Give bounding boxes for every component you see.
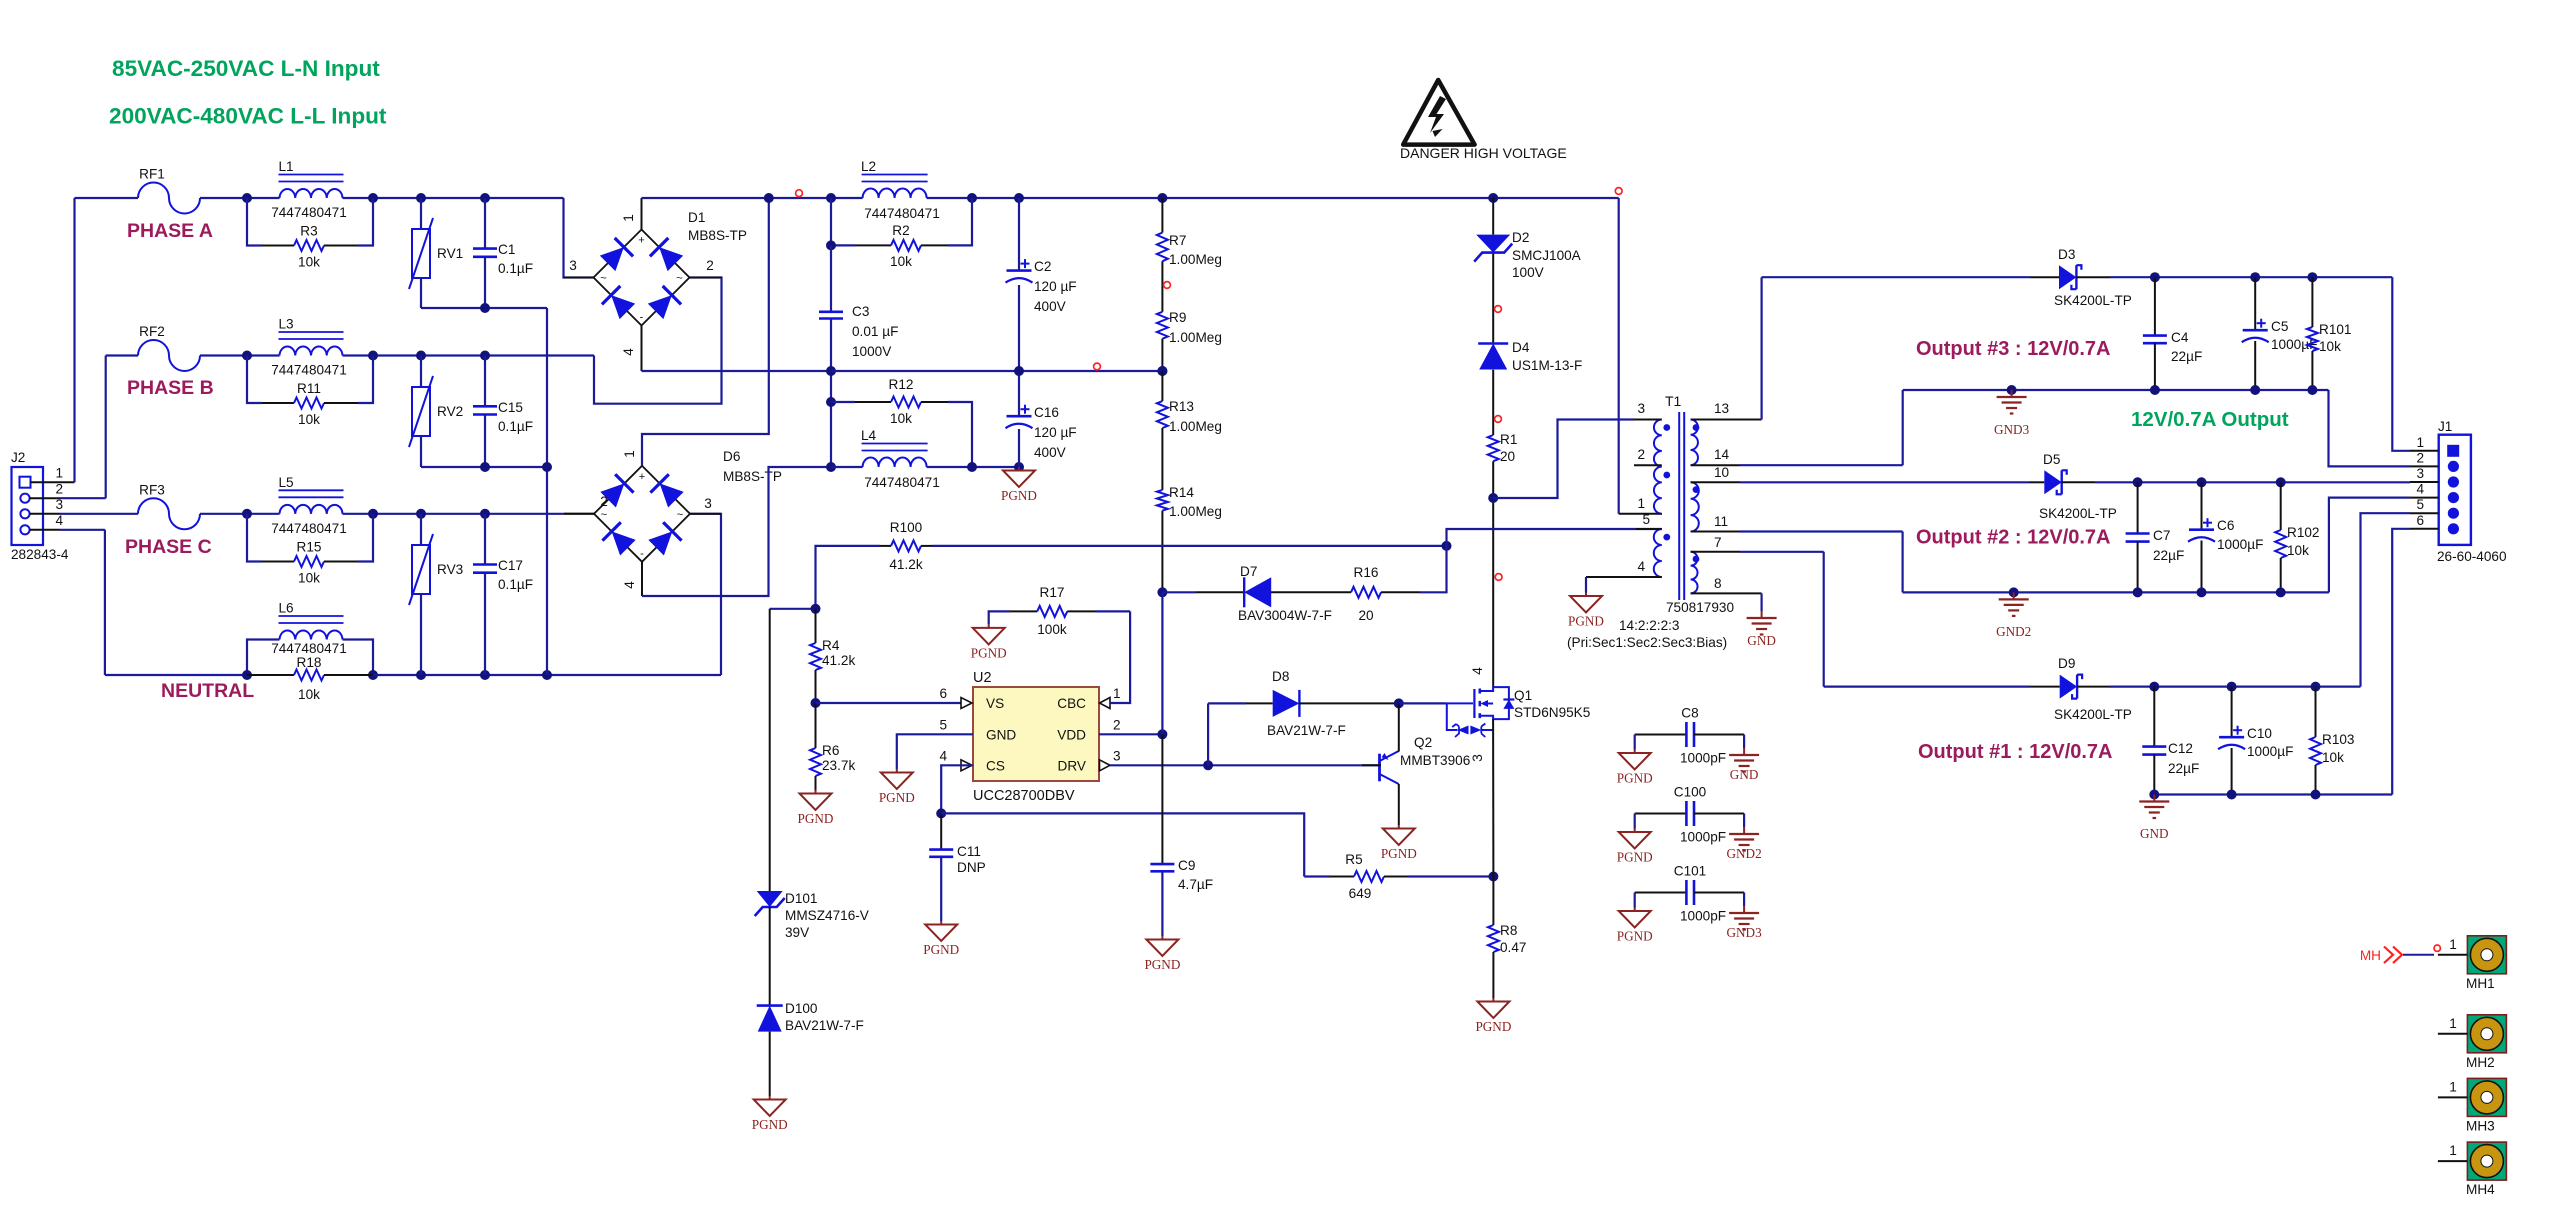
svg-text:DANGER HIGH VOLTAGE: DANGER HIGH VOLTAGE bbox=[1400, 145, 1567, 161]
svg-text:5: 5 bbox=[1642, 512, 1650, 527]
svg-text:4: 4 bbox=[1470, 667, 1485, 675]
svg-text:MB8S-TP: MB8S-TP bbox=[688, 228, 747, 243]
svg-text:2: 2 bbox=[55, 482, 63, 497]
svg-text:1: 1 bbox=[1113, 686, 1121, 701]
svg-text:RF2: RF2 bbox=[139, 324, 165, 339]
svg-text:GND3: GND3 bbox=[1994, 422, 2030, 437]
svg-text:PGND: PGND bbox=[1617, 929, 1653, 944]
svg-text:23.7k: 23.7k bbox=[822, 758, 855, 773]
svg-text:3: 3 bbox=[1113, 749, 1121, 764]
svg-text:C15: C15 bbox=[498, 400, 523, 415]
svg-text:GND3: GND3 bbox=[1727, 925, 1763, 940]
svg-text:BAV21W-7-F: BAV21W-7-F bbox=[785, 1018, 864, 1033]
svg-text:2: 2 bbox=[1637, 447, 1645, 462]
svg-text:PGND: PGND bbox=[923, 942, 959, 957]
svg-text:PGND: PGND bbox=[1381, 846, 1417, 861]
svg-text:J2: J2 bbox=[11, 450, 25, 465]
svg-text:5: 5 bbox=[939, 718, 947, 733]
svg-text:MH2: MH2 bbox=[2466, 1055, 2495, 1070]
svg-text:VDD: VDD bbox=[1057, 728, 1086, 743]
svg-text:6: 6 bbox=[2416, 513, 2424, 528]
svg-text:L6: L6 bbox=[279, 601, 294, 616]
svg-text:R6: R6 bbox=[822, 743, 839, 758]
svg-text:R101: R101 bbox=[2319, 322, 2352, 337]
svg-text:Output #1 : 12V/0.7A: Output #1 : 12V/0.7A bbox=[1918, 741, 2113, 763]
svg-text:PGND: PGND bbox=[798, 811, 834, 826]
svg-text:D4: D4 bbox=[1512, 340, 1530, 355]
svg-text:Q1: Q1 bbox=[1514, 688, 1532, 703]
svg-text:1: 1 bbox=[2449, 1143, 2457, 1158]
svg-text:22µF: 22µF bbox=[2171, 349, 2202, 364]
svg-text:~: ~ bbox=[676, 273, 682, 285]
svg-text:7447480471: 7447480471 bbox=[271, 521, 347, 536]
svg-text:D100: D100 bbox=[785, 1001, 818, 1016]
svg-text:1: 1 bbox=[621, 214, 636, 222]
svg-text:D6: D6 bbox=[723, 449, 740, 464]
svg-text:R4: R4 bbox=[822, 638, 840, 653]
svg-text:100V: 100V bbox=[1512, 265, 1544, 280]
svg-text:10k: 10k bbox=[2322, 750, 2344, 765]
svg-text:L1: L1 bbox=[279, 159, 294, 174]
svg-text:2: 2 bbox=[706, 258, 714, 273]
svg-text:MB8S-TP: MB8S-TP bbox=[723, 469, 782, 484]
svg-text:GND: GND bbox=[2140, 826, 2169, 841]
svg-text:1: 1 bbox=[2416, 435, 2424, 450]
svg-text:D5: D5 bbox=[2043, 452, 2060, 467]
svg-text:MMSZ4716-V: MMSZ4716-V bbox=[785, 908, 869, 923]
svg-text:+: + bbox=[638, 235, 644, 247]
svg-text:750817930: 750817930 bbox=[1666, 600, 1734, 615]
svg-text:0.01 µF: 0.01 µF bbox=[852, 324, 898, 339]
svg-text:GND: GND bbox=[986, 728, 1016, 743]
svg-text:GND2: GND2 bbox=[1727, 846, 1762, 861]
svg-text:CS: CS bbox=[986, 759, 1005, 774]
svg-text:7447480471: 7447480471 bbox=[271, 205, 347, 220]
svg-text:PGND: PGND bbox=[971, 645, 1007, 660]
svg-text:10k: 10k bbox=[890, 411, 912, 426]
svg-text:D7: D7 bbox=[1240, 564, 1257, 579]
svg-text:L3: L3 bbox=[279, 317, 294, 332]
svg-text:100k: 100k bbox=[1037, 622, 1067, 637]
svg-text:MH3: MH3 bbox=[2466, 1118, 2495, 1133]
svg-text:-: - bbox=[640, 312, 644, 324]
svg-text:1000pF: 1000pF bbox=[1680, 909, 1726, 924]
svg-text:NEUTRAL: NEUTRAL bbox=[161, 680, 254, 702]
svg-text:RV2: RV2 bbox=[437, 404, 463, 419]
svg-text:D101: D101 bbox=[785, 891, 818, 906]
svg-text:GND2: GND2 bbox=[1996, 624, 2031, 639]
svg-text:RV1: RV1 bbox=[437, 246, 463, 261]
svg-text:PHASE B: PHASE B bbox=[127, 377, 214, 399]
svg-text:SK4200L-TP: SK4200L-TP bbox=[2054, 707, 2132, 722]
svg-text:3: 3 bbox=[2416, 466, 2424, 481]
svg-text:1.00Meg: 1.00Meg bbox=[1169, 330, 1222, 345]
svg-text:41.2k: 41.2k bbox=[822, 653, 855, 668]
svg-text:Output #3 : 12V/0.7A: Output #3 : 12V/0.7A bbox=[1916, 338, 2111, 360]
svg-text:20: 20 bbox=[1358, 608, 1374, 623]
svg-text:C16: C16 bbox=[1034, 405, 1059, 420]
svg-text:400V: 400V bbox=[1034, 445, 1066, 460]
svg-text:SMCJ100A: SMCJ100A bbox=[1512, 248, 1582, 263]
svg-text:7: 7 bbox=[1714, 535, 1722, 550]
svg-text:PHASE A: PHASE A bbox=[127, 220, 213, 242]
svg-text:SK4200L-TP: SK4200L-TP bbox=[2054, 293, 2132, 308]
svg-text:VS: VS bbox=[986, 696, 1004, 711]
svg-text:MMBT3906: MMBT3906 bbox=[1400, 753, 1470, 768]
svg-text:10k: 10k bbox=[298, 571, 320, 586]
svg-text:4: 4 bbox=[939, 749, 947, 764]
svg-text:1: 1 bbox=[55, 466, 63, 481]
svg-text:3: 3 bbox=[569, 258, 577, 273]
svg-text:D3: D3 bbox=[2058, 247, 2075, 262]
svg-text:400V: 400V bbox=[1034, 299, 1066, 314]
svg-text:~: ~ bbox=[677, 509, 683, 521]
svg-text:4.7µF: 4.7µF bbox=[1178, 877, 1213, 892]
svg-text:DRV: DRV bbox=[1058, 759, 1086, 774]
svg-text:4: 4 bbox=[2416, 482, 2424, 497]
svg-text:1: 1 bbox=[1637, 496, 1645, 511]
svg-text:C8: C8 bbox=[1681, 706, 1698, 721]
svg-text:BAV21W-7-F: BAV21W-7-F bbox=[1267, 723, 1346, 738]
svg-text:L5: L5 bbox=[279, 475, 294, 490]
svg-text:DNP: DNP bbox=[957, 860, 986, 875]
svg-text:L4: L4 bbox=[861, 428, 877, 443]
svg-text:C7: C7 bbox=[2153, 528, 2170, 543]
svg-text:R11: R11 bbox=[297, 381, 321, 396]
svg-text:1: 1 bbox=[2449, 937, 2457, 952]
svg-text:0.1µF: 0.1µF bbox=[498, 261, 533, 276]
svg-text:PGND: PGND bbox=[1568, 614, 1604, 629]
svg-text:11: 11 bbox=[1714, 514, 1728, 529]
svg-text:-: - bbox=[640, 548, 644, 560]
svg-text:282843-4: 282843-4 bbox=[11, 547, 69, 562]
svg-text:STD6N95K5: STD6N95K5 bbox=[1514, 705, 1590, 720]
svg-text:7447480471: 7447480471 bbox=[271, 363, 347, 378]
svg-text:C4: C4 bbox=[2171, 330, 2189, 345]
svg-text:13: 13 bbox=[1714, 401, 1729, 416]
svg-text:1000pF: 1000pF bbox=[1680, 751, 1726, 766]
svg-text:RF1: RF1 bbox=[139, 167, 165, 182]
svg-text:R1: R1 bbox=[1500, 432, 1517, 447]
svg-text:3: 3 bbox=[704, 496, 712, 511]
svg-text:7447480471: 7447480471 bbox=[271, 641, 347, 656]
svg-text:D1: D1 bbox=[688, 210, 705, 225]
svg-text:R5: R5 bbox=[1345, 852, 1362, 867]
svg-text:10k: 10k bbox=[2319, 339, 2341, 354]
svg-text:6: 6 bbox=[939, 686, 947, 701]
svg-text:0.47: 0.47 bbox=[1500, 940, 1526, 955]
svg-text:10k: 10k bbox=[890, 254, 912, 269]
svg-text:R15: R15 bbox=[297, 540, 322, 555]
svg-text:39V: 39V bbox=[785, 925, 809, 940]
svg-text:120 µF: 120 µF bbox=[1034, 425, 1077, 440]
svg-text:1: 1 bbox=[622, 450, 637, 458]
svg-text:85VAC-250VAC L-N Input: 85VAC-250VAC L-N Input bbox=[112, 56, 380, 81]
svg-text:U2: U2 bbox=[973, 670, 992, 686]
svg-text:T1: T1 bbox=[1665, 393, 1682, 409]
svg-text:C9: C9 bbox=[1178, 858, 1195, 873]
svg-text:R9: R9 bbox=[1169, 310, 1186, 325]
svg-text:Output #2 : 12V/0.7A: Output #2 : 12V/0.7A bbox=[1916, 527, 2111, 549]
svg-text:1000V: 1000V bbox=[852, 344, 891, 359]
svg-text:1.00Meg: 1.00Meg bbox=[1169, 419, 1222, 434]
svg-text:CBC: CBC bbox=[1057, 696, 1086, 711]
svg-text:PGND: PGND bbox=[1617, 771, 1653, 786]
svg-text:C3: C3 bbox=[852, 304, 869, 319]
svg-text:1: 1 bbox=[2449, 1016, 2457, 1031]
svg-text:10: 10 bbox=[1714, 465, 1730, 480]
svg-text:20: 20 bbox=[1500, 449, 1516, 464]
svg-text:200VAC-480VAC L-L Input: 200VAC-480VAC L-L Input bbox=[109, 104, 387, 129]
svg-text:1000pF: 1000pF bbox=[1680, 830, 1726, 845]
svg-text:+: + bbox=[639, 471, 645, 483]
svg-text:PGND: PGND bbox=[1144, 957, 1180, 972]
svg-text:R17: R17 bbox=[1040, 585, 1065, 600]
svg-text:C10: C10 bbox=[2247, 726, 2272, 741]
svg-text:D9: D9 bbox=[2058, 656, 2075, 671]
svg-text:R102: R102 bbox=[2287, 525, 2320, 540]
svg-text:1.00Meg: 1.00Meg bbox=[1169, 504, 1222, 519]
svg-text:2: 2 bbox=[2416, 450, 2424, 465]
svg-text:PGND: PGND bbox=[752, 1117, 788, 1132]
svg-text:4: 4 bbox=[622, 581, 637, 589]
svg-text:C12: C12 bbox=[2168, 741, 2193, 756]
svg-text:1000µF: 1000µF bbox=[2247, 744, 2293, 759]
svg-text:R100: R100 bbox=[890, 520, 923, 535]
svg-text:R2: R2 bbox=[892, 223, 909, 238]
svg-text:R8: R8 bbox=[1500, 923, 1517, 938]
svg-text:SK4200L-TP: SK4200L-TP bbox=[2039, 506, 2117, 521]
svg-text:~: ~ bbox=[601, 509, 607, 521]
svg-text:Q2: Q2 bbox=[1414, 735, 1432, 750]
svg-text:1.00Meg: 1.00Meg bbox=[1169, 252, 1222, 267]
svg-text:R103: R103 bbox=[2322, 732, 2355, 747]
svg-text:0.1µF: 0.1µF bbox=[498, 419, 533, 434]
svg-text:0.1µF: 0.1µF bbox=[498, 577, 533, 592]
svg-text:1: 1 bbox=[2449, 1079, 2457, 1094]
svg-text:RF3: RF3 bbox=[139, 482, 165, 497]
svg-text:D2: D2 bbox=[1512, 230, 1529, 245]
svg-text:GND: GND bbox=[1747, 633, 1776, 648]
svg-text:10k: 10k bbox=[298, 412, 320, 427]
svg-text:12V/0.7A Output: 12V/0.7A Output bbox=[2131, 408, 2289, 431]
svg-text:C11: C11 bbox=[957, 844, 981, 859]
svg-text:8: 8 bbox=[1714, 576, 1722, 591]
svg-text:C5: C5 bbox=[2271, 319, 2288, 334]
svg-text:~: ~ bbox=[600, 273, 606, 285]
svg-text:R7: R7 bbox=[1169, 233, 1186, 248]
svg-text:R16: R16 bbox=[1354, 565, 1379, 580]
svg-text:7447480471: 7447480471 bbox=[864, 206, 940, 221]
svg-text:2: 2 bbox=[1113, 718, 1121, 733]
svg-text:14: 14 bbox=[1714, 447, 1730, 462]
svg-text:MH4: MH4 bbox=[2466, 1182, 2495, 1197]
svg-text:120 µF: 120 µF bbox=[1034, 279, 1077, 294]
svg-text:J1: J1 bbox=[2438, 419, 2452, 434]
svg-text:C2: C2 bbox=[1034, 259, 1051, 274]
svg-text:GND: GND bbox=[1730, 767, 1759, 782]
svg-text:PGND: PGND bbox=[1475, 1019, 1511, 1034]
svg-text:PGND: PGND bbox=[1001, 488, 1037, 503]
svg-text:C6: C6 bbox=[2217, 518, 2234, 533]
svg-text:R13: R13 bbox=[1169, 399, 1194, 414]
svg-text:14:2:2:2:3: 14:2:2:2:3 bbox=[1619, 618, 1679, 633]
svg-text:(Pri:Sec1:Sec2:Sec3:Bias): (Pri:Sec1:Sec2:Sec3:Bias) bbox=[1567, 635, 1727, 650]
svg-text:4: 4 bbox=[55, 513, 63, 528]
svg-text:R14: R14 bbox=[1169, 485, 1194, 500]
svg-text:3: 3 bbox=[1470, 754, 1485, 762]
svg-text:22µF: 22µF bbox=[2168, 761, 2199, 776]
svg-text:7447480471: 7447480471 bbox=[864, 475, 940, 490]
svg-text:MH: MH bbox=[2360, 948, 2381, 963]
svg-text:D8: D8 bbox=[1272, 669, 1289, 684]
svg-text:1000µF: 1000µF bbox=[2217, 537, 2263, 552]
svg-text:L2: L2 bbox=[861, 159, 876, 174]
svg-text:10k: 10k bbox=[298, 687, 320, 702]
svg-text:10k: 10k bbox=[2287, 543, 2309, 558]
svg-text:5: 5 bbox=[2416, 497, 2424, 512]
svg-text:US1M-13-F: US1M-13-F bbox=[1512, 358, 1582, 373]
svg-text:RV3: RV3 bbox=[437, 562, 463, 577]
svg-text:22µF: 22µF bbox=[2153, 548, 2184, 563]
svg-text:R12: R12 bbox=[889, 377, 914, 392]
svg-text:R3: R3 bbox=[300, 224, 317, 239]
svg-text:UCC28700DBV: UCC28700DBV bbox=[973, 788, 1075, 804]
svg-text:26-60-4060: 26-60-4060 bbox=[2437, 549, 2507, 564]
svg-text:2: 2 bbox=[600, 494, 608, 509]
svg-text:649: 649 bbox=[1349, 886, 1372, 901]
svg-text:PHASE C: PHASE C bbox=[125, 536, 212, 558]
svg-text:C100: C100 bbox=[1674, 785, 1707, 800]
svg-text:R18: R18 bbox=[297, 655, 322, 670]
svg-text:C1: C1 bbox=[498, 242, 515, 257]
svg-text:PGND: PGND bbox=[1617, 850, 1653, 865]
svg-text:MH1: MH1 bbox=[2466, 976, 2495, 991]
svg-text:4: 4 bbox=[1637, 559, 1645, 574]
svg-text:41.2k: 41.2k bbox=[889, 557, 922, 572]
svg-text:10k: 10k bbox=[298, 255, 320, 270]
svg-text:BAV3004W-7-F: BAV3004W-7-F bbox=[1238, 608, 1332, 623]
svg-text:PGND: PGND bbox=[879, 790, 915, 805]
svg-text:C17: C17 bbox=[498, 558, 523, 573]
svg-text:4: 4 bbox=[621, 348, 636, 356]
svg-text:C101: C101 bbox=[1674, 864, 1707, 879]
svg-text:3: 3 bbox=[1637, 401, 1645, 416]
